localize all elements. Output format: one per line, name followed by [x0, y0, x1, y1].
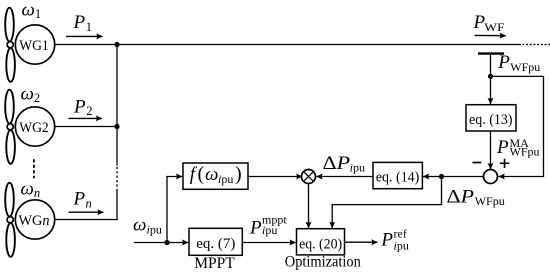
svg-text:eq. (14): eq. (14): [376, 169, 420, 185]
junction node (bus, row 1): [114, 42, 119, 47]
block f(omega_ipu): [183, 163, 248, 189]
svg-text:ipu: ipu: [218, 172, 233, 186]
svg-text:P: P: [73, 12, 86, 33]
wind turbine rotor WG2 (blades): [5, 90, 15, 164]
wire: vertical collector bus (solid lower part): [116, 189, 118, 220]
junction node on Delta P_WFpu wire: [439, 174, 444, 179]
junction node on omega_ipu wire: [164, 240, 169, 245]
svg-text:ω: ω: [133, 215, 146, 236]
wire: tap down to eq.(13): [490, 55, 492, 104]
measurement tap bar on P_WF line: [478, 52, 504, 54]
svg-text:ωn: ωn: [21, 178, 41, 200]
rotor hub WG1: [7, 42, 13, 48]
wire: summing junction output to eq.(14): [423, 176, 484, 178]
label P_2 with flow arrow: [69, 96, 103, 118]
block eq. (13): [466, 105, 516, 131]
svg-text:): ): [235, 163, 242, 185]
block eq. (14): [373, 162, 422, 188]
svg-text:P: P: [497, 52, 510, 73]
svg-text:P: P: [380, 230, 393, 251]
svg-text:eq. (7): eq. (7): [196, 236, 235, 252]
wire: multiplier output down into eq.(20): [308, 184, 310, 229]
svg-text:P: P: [73, 188, 86, 209]
rotor hub WGn: [7, 217, 13, 223]
wire: WG2 output to bus: [55, 126, 117, 128]
generator WG1: [15, 25, 54, 64]
wire: eq.(7) output into eq.(20): [242, 242, 295, 244]
label omega_ipu: [133, 215, 162, 237]
wire: eq.(13) output into summing junction: [490, 131, 492, 169]
junction node on measurement wire: [488, 74, 493, 79]
ellipsis dots between WG2 and WGn: [33, 159, 35, 178]
svg-text:ipu: ipu: [394, 239, 409, 253]
label P_WFpu: [497, 52, 540, 74]
label P_ipu^mppt: [249, 212, 287, 238]
svg-text:ω: ω: [205, 164, 218, 185]
block eq. (20) with Optimization caption: [285, 229, 361, 271]
label P_n with flow arrow: [69, 188, 104, 212]
wire: eq.(20) output P_ipu^ref: [345, 241, 378, 243]
svg-text:2: 2: [86, 104, 92, 118]
svg-text:WG1: WG1: [19, 38, 49, 54]
svg-text:1: 1: [86, 20, 92, 34]
svg-text:ω1: ω1: [22, 0, 42, 21]
svg-text:ipu: ipu: [147, 222, 162, 236]
label P_WF with flow arrow: [473, 12, 506, 36]
svg-text:P: P: [249, 218, 262, 239]
svg-text:WG2: WG2: [19, 120, 49, 136]
svg-text:WFpu: WFpu: [510, 145, 540, 159]
svg-text:ΔP: ΔP: [447, 186, 475, 207]
wire: eq.(14) output into multiplier: [316, 176, 373, 178]
summing junction circle: [484, 170, 498, 184]
svg-text:WF: WF: [484, 20, 505, 34]
svg-text:ipu: ipu: [262, 223, 277, 237]
plus sign at summing junction: [500, 159, 510, 168]
wire: WGn output to bus: [55, 219, 118, 221]
junction node (bus, row 2): [114, 124, 119, 129]
multiplier circle (x): [302, 170, 316, 184]
label Delta P_WFpu: [447, 186, 505, 208]
svg-text:MPPT: MPPT: [194, 255, 235, 272]
svg-text:eq. (13): eq. (13): [469, 112, 513, 128]
wind turbine rotor WG1 (blades): [5, 8, 15, 82]
minus sign at summing junction: [473, 162, 482, 164]
wire: omega_ipu branch up into f(omega_ipu): [167, 177, 182, 243]
svg-text:WFpu: WFpu: [510, 60, 540, 74]
svg-text:Optimization: Optimization: [285, 254, 361, 271]
generator WGn: [15, 200, 54, 239]
label P_WFpu^MA: [496, 136, 540, 159]
wire: f(omega_ipu) output into multiplier: [248, 176, 302, 178]
wire: Delta P_WFpu branch down into eq.(20): [332, 177, 441, 229]
svg-text:ΔP: ΔP: [323, 153, 351, 174]
svg-text:ipu: ipu: [350, 161, 365, 175]
svg-text:ω2: ω2: [21, 84, 41, 106]
wire: vertical collector bus (dashed middle part): [116, 167, 118, 189]
svg-text:P: P: [73, 96, 86, 117]
generator WG2: [15, 107, 54, 146]
wire: feedback right branch into summing junction: [491, 76, 544, 176]
wire: top bus line (WG1 to right side, P_WF line): [55, 44, 521, 46]
svg-text:WGn: WGn: [19, 213, 50, 229]
block eq. (7) with MPPT caption: [189, 228, 242, 272]
wire: vertical collector bus (solid upper part): [116, 45, 118, 166]
rotor hub WG2: [7, 124, 13, 130]
wire: omega_ipu input to eq.(7): [134, 242, 188, 244]
wind turbine rotor WGn (blades): [5, 183, 15, 257]
label P_ipu^ref: [380, 227, 408, 253]
svg-text:eq. (20): eq. (20): [299, 236, 342, 252]
svg-text:n: n: [86, 196, 92, 210]
label P_1 with flow arrow: [66, 12, 103, 37]
svg-text:WFpu: WFpu: [475, 194, 505, 208]
svg-text:(: (: [198, 163, 205, 185]
svg-text:P: P: [496, 137, 509, 158]
wire: dotted continuation of P_WF line: [522, 44, 550, 46]
label Delta P_ipu: [323, 153, 365, 175]
